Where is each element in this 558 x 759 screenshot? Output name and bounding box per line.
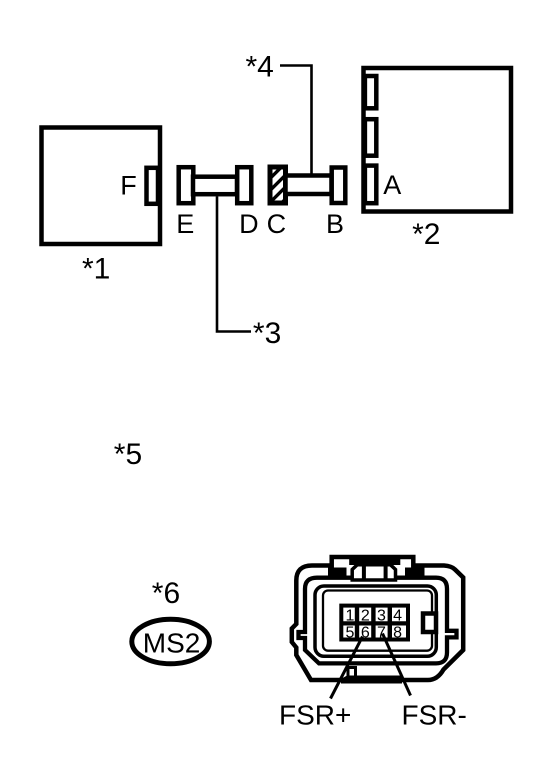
svg-text:*6: *6 (152, 577, 180, 610)
terminal tab 1 of box *2 (365, 76, 376, 108)
wire C-B (286, 176, 332, 195)
label *6 (152, 577, 180, 610)
svg-text:E: E (176, 209, 194, 239)
housing center lock tab (352, 565, 395, 580)
label E (176, 209, 194, 239)
pin number 6 (361, 624, 370, 641)
label MS2 (143, 628, 201, 659)
label D (239, 209, 259, 239)
pin number 8 (393, 624, 402, 641)
housing bottom tab (341, 668, 402, 684)
leader line to *3 (217, 197, 251, 332)
label B (326, 209, 344, 239)
svg-text:8: 8 (393, 624, 402, 641)
pin block (340, 604, 409, 641)
housing third ring inner line (323, 591, 432, 651)
leader line pin7 to FSR- (383, 634, 411, 696)
leader line pin6 to FSR+ (331, 637, 363, 699)
connector F (147, 168, 159, 204)
label A (383, 170, 401, 200)
label *4 (246, 50, 274, 83)
svg-text:F: F (120, 171, 137, 201)
label FSR+ (279, 700, 351, 731)
connector B (332, 168, 346, 204)
pin number 5 (345, 624, 354, 641)
label *1 (82, 253, 110, 286)
label FSR- (402, 700, 467, 731)
svg-text:B: B (326, 209, 344, 239)
ellipse MS2 (132, 619, 210, 664)
svg-text:*3: *3 (253, 317, 281, 350)
connector C (hatched) (239, 160, 325, 210)
connector D (237, 167, 251, 203)
pin number 2 (361, 607, 370, 624)
housing CPA lock rect (423, 614, 436, 633)
wire E-D (193, 177, 237, 195)
svg-text:MS2: MS2 (143, 628, 201, 659)
leader line to *4 (280, 66, 312, 176)
housing third ring (inner body) (315, 586, 436, 656)
housing second ring (299, 578, 457, 664)
label *2 (412, 218, 440, 251)
svg-text:FSR+: FSR+ (279, 700, 351, 731)
svg-text:FSR-: FSR- (402, 700, 467, 731)
pin number 7 (377, 624, 386, 641)
svg-text:3: 3 (377, 607, 386, 624)
connector housing outer ring (292, 557, 463, 680)
svg-text:*1: *1 (82, 253, 110, 286)
label *5 (114, 438, 142, 471)
svg-text:1: 1 (345, 607, 354, 624)
svg-text:D: D (239, 209, 259, 239)
pin number 3 (377, 607, 386, 624)
component box *2 (364, 68, 512, 212)
svg-text:*4: *4 (246, 50, 274, 83)
terminal tab 2 of box *2 (365, 119, 376, 156)
connector E (179, 167, 194, 203)
svg-text:4: 4 (393, 607, 402, 624)
svg-text:*5: *5 (114, 438, 142, 471)
housing top bar tab (328, 558, 425, 576)
label *3 (253, 317, 281, 350)
pin number 4 (393, 607, 402, 624)
component box *1 (42, 128, 161, 245)
label F (120, 171, 137, 201)
svg-text:A: A (383, 170, 401, 200)
svg-text:5: 5 (345, 624, 354, 641)
label C (267, 209, 287, 239)
pin number 1 (345, 607, 354, 624)
svg-text:2: 2 (361, 607, 370, 624)
connector A (tab 3 of box *2) (365, 166, 376, 204)
svg-text:C: C (267, 209, 287, 239)
svg-text:*2: *2 (412, 218, 440, 251)
